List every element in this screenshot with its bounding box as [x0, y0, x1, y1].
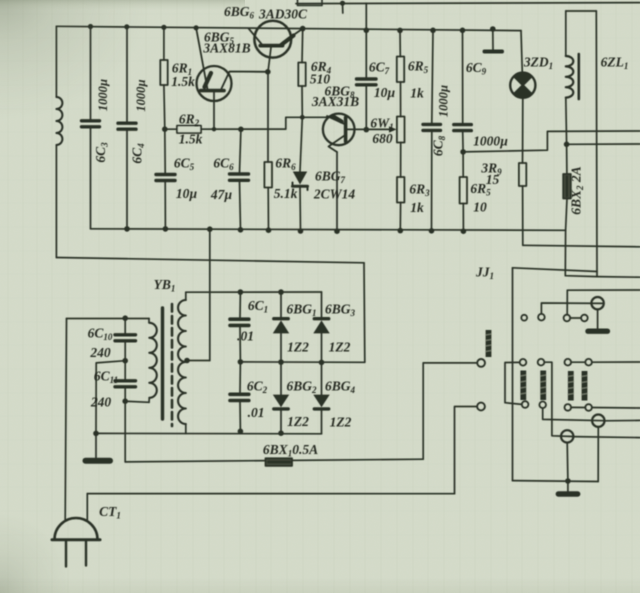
- diode 6BG3 1Z2: [313, 292, 329, 362]
- node: bus junction 6BG5 emitter: [194, 25, 199, 30]
- transistor 6BG5 3AX81B: [196, 28, 268, 129]
- connector pin bar P4: [582, 371, 588, 401]
- svg-text:10µ: 10µ: [374, 85, 396, 100]
- node: rail junction transformer tap riser: [207, 226, 213, 232]
- node: rail junction zener: [298, 228, 304, 234]
- auxiliary contact row: socket 1: [521, 315, 527, 321]
- node: bridge top junction 6C1: [238, 289, 244, 295]
- svg-text:6BG1: 6BG1: [286, 302, 316, 319]
- svg-text:1.5k: 1.5k: [171, 74, 195, 89]
- wire: mains left lead down to plug: [65, 319, 66, 520]
- node: bridge top junction 6BG1: [278, 289, 284, 295]
- node: base wire / 6C7 junction: [364, 127, 370, 133]
- wire: fuse line riser to JJ1 contact: [423, 363, 477, 459]
- lamp 3ZD1: [510, 31, 535, 150]
- wiper arrow into 6W1: [389, 126, 397, 132]
- JJ1 row2 socket 2 with link to socket A: [539, 402, 604, 421]
- resistor 6R4 510: [298, 29, 305, 118]
- node: mid rail junction 6BG4: [319, 360, 325, 366]
- node: bus junction 6C3: [88, 24, 93, 29]
- contact pin (lower, to JJ1): [477, 403, 485, 411]
- node: junction on collector line: [340, 1, 345, 6]
- wire: riser collector line to bus: [365, 3, 367, 30]
- wire: sense line to right edge: [463, 131, 640, 152]
- resistor 6R5 10: [460, 152, 467, 231]
- svg-text:3AX31B: 3AX31B: [311, 94, 359, 109]
- socket B (lower-left big contact): [561, 430, 573, 442]
- potentiometer 6W1 680: [397, 117, 405, 143]
- node: 6R4 / zener / collector wire junction: [300, 115, 305, 120]
- wire: drop from return line into bridge mid-rail: [363, 263, 366, 363]
- capacitor 6C1 .01: [230, 292, 249, 362]
- connector pin bar P2: [540, 371, 546, 401]
- fuse 6BX2 2A: [563, 144, 571, 230]
- wire: 3R9 return exits right: [523, 245, 640, 247]
- svg-text:.01: .01: [248, 405, 265, 420]
- wire: primary bottom link: [125, 401, 149, 402]
- svg-text:1k: 1k: [410, 200, 424, 215]
- wire: 6BG8 base to 6W1 wiper: [346, 128, 393, 130]
- resistor 6R2 1.5k (horizontal): [177, 126, 201, 133]
- diode 6BG2 1Z2: [273, 362, 289, 433]
- node: rail junction 6R3: [398, 228, 404, 234]
- wire: through socket A to right edge: [605, 419, 640, 421]
- wire: bridge top rail: [186, 291, 322, 293]
- capacitor 6C5 10u: [156, 129, 175, 229]
- wire: block right edge riser to socket A: [597, 427, 599, 482]
- JJ1 row1 socket 1 with U-link: [505, 359, 528, 408]
- wire: primary top link: [67, 318, 150, 320]
- wire: rail drop to lower right exit: [565, 230, 640, 277]
- inductor L (filter choke, left edge): [56, 97, 62, 145]
- svg-text:1Z2: 1Z2: [287, 414, 309, 429]
- auxiliary contact row: socket 4: [581, 315, 588, 322]
- auxiliary contact row: socket 3 with line to right edge: [564, 290, 640, 321]
- svg-text:680: 680: [372, 131, 393, 146]
- wire: plug right lead: [86, 494, 88, 520]
- node: mid rail junction 6BG2: [278, 359, 284, 365]
- wire: link socket3-socket4: [570, 317, 581, 319]
- transistor 6BG8 3AX31B: [323, 114, 355, 232]
- node: 6R1/6R2/6C5 junction: [162, 126, 168, 132]
- wire: left vertical feed (top): [55, 26, 57, 97]
- svg-text:.01: .01: [237, 329, 254, 344]
- fuse 6BX1 0.5A: [266, 458, 293, 466]
- node: rail junction 6C4: [124, 226, 130, 232]
- wire: short stub below junction: [342, 3, 344, 13]
- auxiliary contact row: socket 2 with riser: [538, 303, 604, 321]
- transistor 6BG6 3AD30C: [249, 21, 303, 72]
- transformer YB1 primary winding: [149, 319, 157, 403]
- connector JJ1 frame bottom edge: [513, 480, 599, 483]
- wire: bridge bottom rail / ground rail: [96, 432, 322, 434]
- page vignettes: [0, 0, 150, 120]
- connector JJ1 frame top edge: [513, 268, 598, 272]
- svg-text:2CW14: 2CW14: [313, 187, 356, 202]
- connector JJ1 frame left edge: [512, 268, 514, 481]
- wire: mains return line from plug: [87, 493, 454, 495]
- svg-text:3ZD1: 3ZD1: [523, 55, 553, 72]
- svg-text:240: 240: [89, 345, 111, 360]
- node: bus junction 6C9: [460, 28, 466, 34]
- node: 6BG6 base / 6BG5 collector junction: [265, 69, 271, 75]
- resistor 6R5 1k: [397, 30, 404, 116]
- capacitor 6C11 240: [115, 361, 136, 402]
- node: bottom rail junction 6C2: [238, 429, 244, 435]
- wire: through socket B to right edge: [573, 437, 640, 438]
- wire: top supply bus: [56, 26, 521, 30]
- node: 6C10 top junction: [122, 315, 128, 321]
- ground (under JJ1 block): [558, 481, 577, 494]
- resistor 6R1 1.5k: [160, 27, 167, 129]
- resistor 6R3 1k: [397, 143, 404, 231]
- wire: mains branch down to fuse line: [124, 401, 126, 462]
- node: rail junction 6C5: [163, 226, 169, 232]
- node: 6C9 / 6R5(10) / sense line junction: [460, 149, 466, 155]
- transformer YB1 secondary winding: [178, 292, 186, 433]
- JJ1 row1 sockets 3-4 with line to right edge: [565, 359, 640, 366]
- inductor 6ZL1 with core: [566, 11, 597, 277]
- wire: left vertical feed (bottom): [55, 145, 57, 258]
- svg-text:1.5k: 1.5k: [179, 132, 203, 147]
- socket A (right big contact): [592, 415, 604, 427]
- capacitor 6C8 1000u: [423, 30, 441, 231]
- JJ1 row1 socket 2 with link to socket B: [538, 359, 574, 437]
- svg-text:1000µ: 1000µ: [437, 85, 451, 117]
- diode 6BG1 1Z2: [273, 292, 289, 362]
- node: rail junction 6BG8 emitter: [334, 228, 340, 234]
- wire: socket B down to block bottom edge: [566, 443, 569, 481]
- capacitor 6C2 .01: [230, 362, 249, 431]
- wire: tap line to right edge: [567, 143, 640, 145]
- JJ1 row2 sockets 3-4 with line to right edge: [565, 404, 640, 411]
- node: bottom rail junction 6BG2: [278, 430, 284, 436]
- node: rail junction 6R5(10): [461, 228, 467, 234]
- svg-text:240: 240: [90, 395, 112, 410]
- node: rail junction 6R6: [266, 227, 272, 233]
- transformer YB1 core (laminated dashed bar): [171, 304, 174, 426]
- zener diode 6BG7 2CW14: [293, 117, 308, 231]
- svg-text:3AD30C: 3AD30C: [258, 7, 308, 22]
- node: 6C10/6C11 mid junction: [122, 358, 128, 364]
- wire: long return line to rectifier output: [56, 258, 364, 263]
- svg-text:6BX2 2A: 6BX2 2A: [569, 166, 586, 214]
- transformer YB1 core (solid bar): [161, 308, 164, 419]
- ground (chassis bar under rail): [86, 433, 111, 460]
- node: bus junction 6BG6 collector / 6R4: [300, 26, 306, 32]
- node: bus junction 6R5/6W1 chain: [397, 28, 403, 34]
- capacitor 6C9 1000u: [454, 30, 472, 152]
- svg-text:1k: 1k: [410, 86, 424, 101]
- svg-text:1Z2: 1Z2: [287, 340, 309, 355]
- wire: collector output line (top edge): [296, 3, 640, 4]
- node: row junction 6C6: [238, 127, 244, 133]
- svg-text:3AX81B: 3AX81B: [202, 41, 250, 56]
- svg-text:15: 15: [486, 172, 500, 187]
- capacitor 6C10 240: [115, 318, 136, 361]
- node: 6C11 bottom / primary bottom junction: [122, 398, 128, 404]
- node: ground rail left junction: [93, 431, 99, 437]
- wire: center tap to riser: [187, 360, 210, 362]
- node: 6BG5 base / row junction: [212, 127, 216, 131]
- resistor 6R6 5.1k: [264, 72, 272, 230]
- node: secondary center tap: [184, 358, 190, 364]
- node: 6ZL1 / tap line junction: [564, 142, 570, 148]
- node: bus junction 6C4: [124, 24, 129, 29]
- svg-text:1000µ: 1000µ: [473, 134, 508, 149]
- svg-text:10: 10: [473, 200, 487, 215]
- wire: bridge mid rail: [240, 361, 364, 363]
- node: bottom edge ground junction: [565, 478, 571, 484]
- resistor (unlabeled, cut by page top edge): [298, 0, 323, 6]
- wire: fuse line: [125, 459, 423, 462]
- diode 6BG4 1Z2: [313, 362, 329, 433]
- node: bus junction output terminal: [490, 26, 496, 32]
- socket with ground (upper big contact): [588, 297, 607, 331]
- connector pin bar P3: [568, 371, 574, 401]
- svg-text:1Z2: 1Z2: [329, 340, 351, 355]
- wire: return line riser to JJ1 contact: [455, 407, 478, 494]
- node: bus junction 6C8: [430, 28, 436, 34]
- node: rail junction 6C8: [429, 228, 435, 234]
- capacitor 6C7 10u: [357, 30, 377, 129]
- wire: amplifier bottom rail: [91, 229, 566, 231]
- svg-text:5.1k: 5.1k: [274, 186, 298, 201]
- connector pin bar (between contacts): [486, 330, 492, 357]
- plug CT1: [52, 518, 100, 566]
- svg-text:1Z2: 1Z2: [330, 415, 352, 430]
- contact pin (upper, to JJ1): [477, 359, 485, 367]
- terminal stub with bar: [485, 29, 503, 52]
- capacitor 6C6 47u: [230, 129, 249, 230]
- capacitor 6C3: [82, 27, 100, 229]
- wire: 6C11 left branch: [96, 361, 125, 434]
- wire: 6R2 feedback row: [165, 117, 328, 129]
- node: mid rail junction 6C2: [238, 359, 244, 365]
- node: bus junction 6R1: [161, 25, 166, 30]
- node: rail junction 6C6: [238, 227, 244, 233]
- wire: tap riser up to amplifier rail: [209, 229, 211, 360]
- svg-text:10µ: 10µ: [176, 186, 198, 201]
- capacitor 6C4: [118, 27, 136, 229]
- svg-text:47µ: 47µ: [210, 187, 233, 202]
- connector pin bar P1: [520, 371, 526, 401]
- node: bus junction 6C7 riser: [364, 28, 370, 34]
- resistor 3R9 15: [519, 150, 526, 245]
